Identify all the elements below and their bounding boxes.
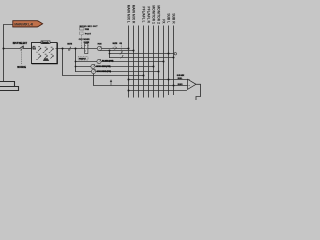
svg-text:SUB R: SUB R	[172, 13, 176, 24]
bus labels rotated	[127, 5, 176, 25]
node flag branch	[3, 48, 5, 50]
pot in box 5	[45, 56, 48, 59]
wire row lower tap	[129, 90, 187, 92]
svg-text:MAIN MIX L-R: MAIN MIX L-R	[14, 22, 33, 26]
wire pan junction down	[109, 51, 111, 58]
bus PFL/AFL R	[148, 26, 150, 98]
node AFL branch	[109, 53, 111, 55]
svg-text:PAN: PAN	[98, 43, 102, 46]
svg-text:PFL/AFL R: PFL/AFL R	[147, 7, 151, 24]
bus FX	[163, 26, 165, 98]
title tab	[41, 41, 50, 44]
wire pan R output	[99, 49, 133, 51]
fader	[84, 41, 90, 53]
pin stubs	[32, 47, 58, 50]
switch PFL lever	[120, 55, 123, 58]
wire input to switch	[4, 48, 21, 50]
node sub row left end	[128, 79, 130, 81]
node AFL sub L tap	[168, 53, 170, 55]
arrow marker from sub row up	[110, 79, 112, 85]
pot in box 6	[51, 56, 54, 59]
node FX tap	[163, 61, 165, 63]
bus MONITOR 2	[158, 26, 160, 98]
svg-text:MONITOR 1: MONITOR 1	[152, 5, 156, 24]
svg-text:MAIN MIX L: MAIN MIX L	[127, 5, 131, 23]
switch MUTE 2 with dashes	[112, 43, 122, 52]
node sub L opamp tap	[168, 79, 170, 81]
svg-text:FX SEND (PRE): FX SEND (PRE)	[102, 60, 114, 62]
node main mix R tap	[133, 50, 135, 52]
bottom symbol	[43, 58, 49, 61]
node lower tap left end	[128, 90, 130, 92]
wire row FX send	[101, 61, 164, 63]
junction dots	[3, 48, 175, 92]
node aux FX stub	[75, 61, 77, 63]
svg-text:MON 2 SEND (PRE): MON 2 SEND (PRE)	[97, 71, 112, 73]
svg-text:POST: POST	[85, 34, 92, 36]
dashed pre/post label box	[78, 57, 88, 61]
wire aux stub MON2	[76, 71, 92, 73]
switch INPUT SELECT	[13, 43, 28, 51]
dashed source line	[17, 50, 26, 69]
wire from net flag left going down	[4, 25, 13, 82]
knob tick marks	[36, 46, 52, 60]
wire row MON1 send	[95, 66, 154, 68]
bus SUB R	[173, 26, 175, 96]
svg-text:Reverb: Reverb	[42, 42, 50, 44]
wire op-amp output hook	[196, 84, 201, 100]
svg-text:SOURCE: SOURCE	[17, 67, 26, 69]
svg-text:CH FADER: CH FADER	[79, 38, 90, 41]
net flag MAIN L-R	[13, 21, 43, 27]
node PFL sub R tap	[173, 57, 175, 59]
node sub R opamp tap	[173, 85, 175, 87]
bus unlabeled	[138, 26, 140, 98]
checkbox POST	[79, 32, 84, 35]
pot in box 3	[51, 49, 54, 52]
bus MAIN MIX L	[128, 26, 130, 98]
wire bottom left hook lower	[0, 90, 19, 92]
svg-text:INPUT SELECT: INPUT SELECT	[13, 43, 28, 45]
bus SUB L	[168, 26, 170, 96]
svg-text:MONITOR 2: MONITOR 2	[157, 5, 161, 24]
pot in box 1	[38, 48, 54, 59]
node main mix L tap	[128, 48, 130, 50]
wire from MON2 pot down to sub row	[94, 73, 188, 85]
node PFL/AFL L tap	[143, 75, 145, 77]
svg-text:PRE/PST: PRE/PST	[79, 58, 87, 60]
svg-text:MON 1 SEND (PRE): MON 1 SEND (PRE)	[96, 66, 111, 68]
wire main channel line	[57, 48, 129, 50]
node aux branch	[75, 48, 77, 50]
potentiometer PAN	[97, 43, 102, 51]
node MON2 tap	[158, 71, 160, 73]
node PFL branch	[62, 48, 64, 50]
bus MONITOR 1	[153, 26, 155, 98]
svg-text:SUB MIX: SUB MIX	[177, 75, 185, 77]
potentiometer MON1 send	[91, 64, 111, 69]
svg-text:SUB L: SUB L	[178, 78, 183, 80]
dashed tap to fader	[81, 35, 83, 48]
pot in box 2	[45, 49, 48, 52]
svg-text:SUB L: SUB L	[167, 13, 171, 23]
wire row PFL send	[110, 57, 174, 59]
node pan branch	[109, 50, 111, 52]
wire aux bracket vertical	[75, 49, 77, 72]
switch MUTE 1	[67, 43, 72, 50]
svg-text:PFL/AFL L: PFL/AFL L	[142, 7, 146, 23]
wire branch down to PFL row	[63, 49, 144, 76]
channel module box	[32, 41, 58, 64]
open circle connector AFL	[174, 53, 176, 55]
svg-text:MAIN MIX R: MAIN MIX R	[132, 5, 136, 24]
svg-text:IN L: IN L	[33, 46, 36, 48]
node aux MON1 stub	[75, 66, 77, 68]
wire row MON2 send	[96, 71, 159, 73]
wire bottom left hook middle	[0, 87, 19, 91]
switch AFL lever	[120, 52, 123, 55]
wire bottom left hook upper	[0, 82, 15, 87]
mono mix pre/post group	[79, 26, 98, 49]
wire row AFL to circle	[110, 53, 174, 55]
op-amp SUB MIX	[177, 75, 196, 89]
bus vertical lines	[129, 26, 174, 98]
wire aux stub FX	[76, 61, 98, 63]
node MON1 tap	[153, 66, 155, 68]
pot in box 4	[38, 56, 41, 59]
potentiometer MON2 send	[91, 69, 111, 74]
wire aux stub MON1	[76, 66, 92, 68]
checkbox PRE	[80, 27, 84, 30]
bus PFL/AFL L	[143, 26, 145, 98]
potentiometer FX send	[97, 59, 114, 64]
bus MAIN MIX R	[133, 26, 135, 98]
wire row sub L into op-amp	[129, 79, 188, 81]
wire switch to fader box	[24, 48, 32, 50]
